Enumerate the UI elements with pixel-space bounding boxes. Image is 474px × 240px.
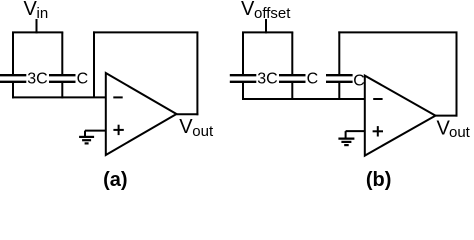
svg-text:3C: 3C	[257, 71, 277, 88]
svg-text:offset: offset	[254, 5, 291, 22]
svg-text:C: C	[77, 71, 89, 88]
svg-text:C: C	[353, 73, 365, 90]
svg-text:V: V	[179, 116, 193, 138]
svg-text:3C: 3C	[27, 71, 47, 88]
svg-text:V: V	[24, 0, 38, 20]
svg-text:C: C	[307, 71, 319, 88]
svg-text:out: out	[192, 123, 214, 140]
svg-text:in: in	[37, 5, 49, 22]
svg-text:(a): (a)	[103, 169, 127, 191]
svg-text:(b): (b)	[366, 169, 392, 191]
svg-text:V: V	[241, 0, 255, 20]
svg-text:out: out	[449, 124, 471, 141]
